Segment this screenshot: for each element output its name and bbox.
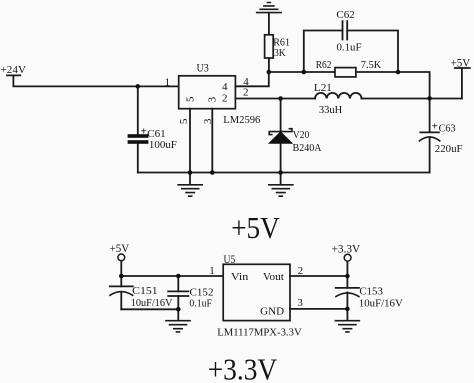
svg-text:3: 3 [207,96,219,102]
svg-text:U5: U5 [224,253,236,266]
svg-text:GND: GND [260,305,284,317]
svg-text:5: 5 [178,118,190,124]
svg-text:2: 2 [298,265,304,277]
svg-text:+3.3V: +3.3V [208,352,278,383]
svg-text:C153: C153 [359,285,383,297]
svg-text:3: 3 [297,297,303,309]
svg-text:C63: C63 [439,122,456,134]
svg-text:+5V: +5V [451,56,471,69]
svg-text:+5V: +5V [231,211,280,245]
svg-text:3K: 3K [274,47,286,59]
svg-text:33uH: 33uH [319,104,342,116]
svg-text:220uF: 220uF [435,143,463,155]
svg-text:Vout: Vout [263,271,284,283]
svg-text:2: 2 [243,86,249,98]
svg-text:5: 5 [184,96,196,102]
svg-text:10uF/16V: 10uF/16V [359,298,403,310]
svg-text:V20: V20 [293,129,310,141]
svg-text:2: 2 [222,93,228,105]
svg-text:100uF: 100uF [149,139,177,151]
svg-text:L21: L21 [314,82,332,94]
svg-text:+3.3V: +3.3V [332,242,361,256]
svg-text:+: + [432,121,438,133]
svg-text:B240A: B240A [293,142,322,154]
svg-text:C151: C151 [132,285,158,297]
svg-text:1: 1 [209,265,215,277]
svg-text:0.1uF: 0.1uF [189,297,212,309]
svg-text:4: 4 [222,81,228,93]
svg-text:+5V: +5V [110,241,130,255]
svg-text:10uF/16V: 10uF/16V [131,297,173,309]
svg-text:U3: U3 [197,62,209,75]
svg-text:LM2596: LM2596 [223,114,260,126]
svg-text:R62: R62 [316,59,332,71]
svg-text:LM1117MPX-3.3V: LM1117MPX-3.3V [217,326,302,338]
svg-text:+: + [141,126,147,138]
svg-text:+24V: +24V [1,64,27,76]
svg-text:7.5K: 7.5K [361,59,382,71]
svg-text:1: 1 [165,76,171,88]
svg-text:0.1uF: 0.1uF [337,42,362,54]
svg-text:3: 3 [202,118,214,124]
svg-text:Vin: Vin [231,271,249,283]
svg-text:C62: C62 [336,9,354,21]
